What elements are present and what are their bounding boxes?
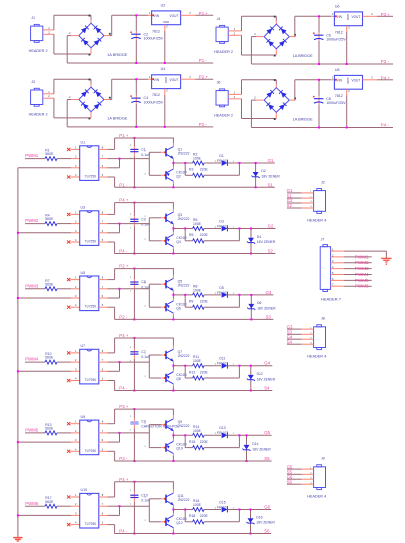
no-connect pin4: [67, 240, 80, 243]
no-connect pin1: [67, 422, 80, 425]
wire pin8 to positive rail: [99, 202, 174, 215]
wire net S4 to J8 pin 4: [287, 343, 314, 345]
wire resistor to pin2: [57, 288, 80, 290]
wire VOUT output net P1+: [181, 14, 214, 16]
negative rail wire: [115, 460, 272, 462]
svg-text:S4: S4: [287, 339, 293, 344]
wire resistor to pin2: [57, 505, 80, 507]
wire J7 pin4 net PWM3: [331, 268, 372, 270]
svg-text:S2: S2: [268, 249, 274, 254]
diode D13 FR 107: [204, 426, 272, 438]
svg-text:G5: G5: [264, 430, 270, 435]
no-connect pin4: [67, 450, 80, 453]
svg-text:G1: G1: [268, 158, 274, 163]
diode D11 FR 107: [204, 357, 272, 369]
wire J7 pin2 net PWM1: [331, 256, 372, 258]
svg-text:HEADER 2: HEADER 2: [214, 113, 233, 117]
svg-text:220E: 220E: [200, 168, 209, 172]
svg-text:TLP250: TLP250: [85, 378, 97, 382]
resistor R16 100E: [193, 499, 205, 512]
zener diode D14 18V ZENER: [243, 434, 272, 461]
optocoupler U1 TLP250: [75, 141, 104, 181]
svg-text:U4: U4: [161, 67, 166, 71]
diode D3 FR 107: [204, 219, 275, 231]
resistor R10 560E: [45, 352, 57, 364]
capacitor C3 0.1uF: [130, 203, 151, 254]
svg-text:D5: D5: [219, 286, 223, 290]
resistor R15 220E: [185, 435, 239, 449]
no-connect pin1: [67, 495, 80, 498]
svg-text:2N2222: 2N2222: [178, 283, 190, 287]
capacitor C10 0.1uF: [130, 482, 151, 534]
svg-text:TLP250: TLP250: [85, 240, 97, 244]
capacitor C6 1000uF/25V: [313, 15, 347, 65]
wire PWM5 input: [25, 432, 45, 434]
svg-text:2N2222: 2N2222: [178, 354, 190, 358]
svg-text:R12: R12: [189, 370, 195, 374]
svg-text:P2 +: P2 +: [119, 264, 129, 269]
wire J7 pin7 net PWM6: [331, 285, 372, 287]
svg-text:VIN: VIN: [337, 79, 343, 83]
wire VOUT output net P4+: [363, 79, 394, 81]
svg-text:P4 +: P4 +: [381, 75, 391, 80]
optocoupler U3 TLP250: [75, 206, 104, 246]
wire pin3 to ground rail: [18, 167, 80, 169]
svg-text:Q10: Q10: [176, 447, 183, 451]
wire PWM1 input: [25, 158, 45, 160]
wire bridge plus to regulator VIN: [104, 15, 152, 35]
wire opto output to transistor bases: [99, 423, 165, 448]
wire opto output to transistor bases: [99, 216, 165, 241]
wire VOUT output net P2+: [181, 78, 214, 80]
svg-text:U2: U2: [161, 3, 166, 7]
svg-text:100E: 100E: [193, 222, 202, 226]
no-connect pin1: [67, 351, 80, 354]
svg-text:P4 -: P4 -: [381, 123, 390, 128]
resistor R8 100E: [193, 284, 205, 297]
power ground symbol: [381, 258, 391, 265]
svg-text:D4: D4: [257, 235, 261, 239]
resistor R13 560E: [45, 423, 57, 435]
svg-text:FR 107: FR 107: [217, 362, 228, 366]
wire J pin1 to bridge AC1: [43, 15, 91, 30]
resistor R1 560E: [45, 149, 57, 161]
svg-text:FR 107: FR 107: [217, 224, 228, 228]
svg-text:J4: J4: [217, 17, 221, 21]
svg-text:J2: J2: [321, 180, 325, 184]
svg-text:2N2222: 2N2222: [178, 217, 190, 221]
svg-text:VOUT: VOUT: [351, 15, 360, 19]
diode D1 FR 107: [204, 154, 275, 166]
capacitor C1 0.1uF: [130, 138, 151, 187]
svg-text:R3: R3: [189, 168, 193, 172]
svg-text:1000uF/25V: 1000uF/25V: [144, 101, 164, 105]
svg-text:VOUT: VOUT: [351, 79, 360, 83]
transistor Q5 2N2222: [164, 269, 189, 295]
capacitor C5 0.1uF: [130, 269, 151, 320]
capacitor C8 1000uF/25V: [313, 79, 347, 129]
svg-text:HEADER 2: HEADER 2: [29, 113, 48, 117]
negative rail wire: [115, 533, 272, 535]
optocoupler U10 TLP250: [75, 488, 104, 528]
transistor Q11 2N2222: [164, 482, 189, 510]
wire pin3 to ground rail: [18, 297, 80, 299]
svg-text:P4 -: P4 -: [119, 386, 128, 391]
svg-text:G3: G3: [266, 290, 272, 295]
svg-text:S5: S5: [264, 456, 270, 461]
wire J7 pin1 to power ground: [331, 251, 387, 258]
wire pin8 to positive rail: [99, 137, 174, 149]
svg-text:560E: 560E: [45, 427, 54, 431]
svg-text:1A BRIDGE: 1A BRIDGE: [293, 54, 314, 58]
svg-text:7812: 7812: [152, 93, 160, 97]
svg-text:P1 +: P1 +: [199, 11, 209, 16]
svg-text:HEADER 2: HEADER 2: [214, 50, 233, 54]
bridge rectifier 1A BRIDGE: [69, 23, 128, 57]
svg-text:220E: 220E: [200, 233, 209, 237]
svg-text:560E: 560E: [45, 356, 54, 360]
svg-text:FR 107: FR 107: [217, 431, 228, 435]
svg-text:VIN: VIN: [154, 78, 160, 82]
svg-text:G2: G2: [268, 223, 274, 228]
wire pin8 to positive rail: [99, 268, 174, 280]
wire pin3 to ground rail: [18, 441, 80, 443]
svg-text:560E: 560E: [45, 500, 54, 504]
svg-text:S6: S6: [287, 479, 293, 484]
svg-text:PWM1: PWM1: [355, 254, 369, 259]
capacitor C9 CAPACITOR NON-POL: [130, 409, 179, 461]
wire bridge plus to regulator VIN: [289, 80, 334, 100]
svg-text:100E: 100E: [193, 429, 202, 433]
bridge rectifier 1A BRIDGE: [254, 88, 313, 122]
svg-text:HEADER 4: HEADER 4: [307, 355, 326, 359]
svg-text:P4 -: P4 -: [119, 249, 128, 254]
wire net S6 to J9 pin 4: [287, 483, 314, 485]
svg-text:D6: D6: [257, 301, 261, 305]
svg-text:PWM4: PWM4: [25, 357, 39, 362]
no-connect pin1: [67, 213, 80, 216]
svg-text:U7: U7: [81, 344, 86, 348]
svg-text:P3 -: P3 -: [119, 456, 128, 461]
svg-text:PWM4: PWM4: [355, 272, 369, 277]
svg-text:PWM5: PWM5: [355, 278, 369, 283]
wire bridge plus to regulator VIN: [104, 79, 152, 99]
regulator U6 7812: [332, 4, 373, 34]
no-connect pin4: [67, 379, 80, 382]
svg-text:VOUT: VOUT: [170, 78, 179, 82]
svg-text:560E: 560E: [45, 282, 54, 286]
wire regulator GND to ground rail: [346, 26, 348, 65]
wire regulator GND to ground rail: [164, 89, 166, 128]
transistor Q12 CK100: [164, 510, 186, 534]
zener diode D6 18V ZENER: [247, 294, 276, 320]
resistor R14 100E: [193, 425, 205, 438]
svg-text:7812: 7812: [335, 94, 343, 98]
wire opto output to transistor bases: [99, 282, 165, 307]
wire J7 pin6 net PWM5: [331, 279, 372, 281]
svg-text:PWM5: PWM5: [25, 428, 39, 433]
resistor R3 220E: [185, 163, 239, 177]
wire J pin2 to bridge AC2: [43, 98, 91, 119]
svg-text:FR 107: FR 107: [217, 291, 228, 295]
wire net G3 to J8 pin 1: [287, 328, 314, 330]
svg-text:D13: D13: [219, 426, 225, 430]
svg-text:P1 -: P1 -: [119, 182, 128, 187]
wire bridge plus to regulator VIN: [289, 16, 334, 36]
wire J pin2 to bridge AC2: [43, 34, 91, 55]
transistor Q6 CK100: [164, 295, 186, 320]
svg-text:J9: J9: [321, 457, 325, 461]
wire bridge minus to ground rail: [251, 37, 393, 64]
wire pin3 to ground rail: [18, 370, 80, 372]
wire opto output to transistor bases: [99, 151, 165, 176]
svg-text:P4 +: P4 +: [119, 333, 129, 338]
svg-text:1000uF/25V: 1000uF/25V: [144, 37, 164, 41]
svg-text:S1: S1: [268, 182, 274, 187]
svg-text:S2: S2: [287, 203, 293, 208]
svg-text:PWM3: PWM3: [25, 283, 39, 288]
svg-text:Q4: Q4: [176, 240, 181, 244]
svg-text:GND: GND: [164, 77, 168, 83]
svg-text:D1: D1: [219, 154, 223, 158]
svg-text:100E: 100E: [193, 503, 202, 507]
regulator U4 7812: [149, 67, 191, 97]
svg-text:220E: 220E: [200, 514, 209, 518]
svg-text:2N2222: 2N2222: [178, 424, 190, 428]
wire net S1 to J2 pin 2: [287, 197, 314, 199]
svg-text:R9: R9: [189, 300, 193, 304]
connector J1 HEADER 2: [29, 16, 51, 53]
svg-text:18V ZENER: 18V ZENER: [257, 377, 276, 381]
svg-text:100E: 100E: [193, 359, 202, 363]
svg-text:P2 +: P2 +: [199, 75, 209, 80]
svg-text:U1: U1: [81, 141, 86, 145]
transistor Q2 CK100: [164, 163, 186, 187]
svg-text:P2 -: P2 -: [199, 122, 208, 127]
transistor Q7 2N2222: [164, 338, 189, 366]
connector J6 HEADER 2: [214, 81, 236, 118]
svg-text:R15: R15: [189, 440, 195, 444]
svg-text:VIN: VIN: [154, 14, 160, 18]
wire pin8 to positive rail: [99, 337, 174, 353]
connector J4 HEADER 2: [214, 17, 236, 54]
wire net G5 to J9 pin 1: [287, 468, 314, 470]
svg-text:U10: U10: [81, 488, 88, 492]
svg-text:PWM6: PWM6: [25, 501, 39, 506]
wire pin5 to negative rail: [99, 307, 115, 319]
svg-text:P4 +: P4 +: [119, 477, 129, 482]
wire opto output to transistor bases: [99, 353, 165, 378]
svg-text:FR 107: FR 107: [217, 505, 228, 509]
wire bridge minus to ground rail: [67, 100, 213, 127]
left common return rail wire: [17, 168, 19, 537]
bridge rectifier 1A BRIDGE: [254, 24, 313, 58]
svg-text:U3: U3: [81, 206, 86, 210]
svg-text:U6: U6: [335, 4, 340, 8]
connector J7 HEADER 7: [320, 238, 342, 302]
svg-text:D12: D12: [257, 372, 263, 376]
no-connect pin4: [67, 306, 80, 309]
wire regulator GND to ground rail: [164, 25, 166, 64]
negative rail wire: [115, 390, 273, 392]
svg-text:U9: U9: [81, 415, 86, 419]
wire J7 pin3 net PWM2: [331, 262, 372, 264]
wire J7 pin5 net PWM4: [331, 274, 372, 276]
wire J pin2 to bridge AC2: [228, 35, 276, 56]
svg-text:D11: D11: [219, 357, 225, 361]
gate drive node wire: [172, 509, 192, 511]
svg-text:TLP250: TLP250: [85, 175, 97, 179]
svg-text:R6: R6: [189, 233, 193, 237]
svg-text:P4 +: P4 +: [119, 198, 129, 203]
transistor Q3 2N2222: [164, 203, 189, 229]
wire PWM6 input: [25, 505, 45, 507]
wire J pin2 to bridge AC2: [228, 99, 276, 120]
resistor R2 100E: [193, 153, 205, 166]
connector J3 HEADER 2: [29, 80, 51, 117]
resistor R18 220E: [185, 510, 239, 524]
svg-text:GND: GND: [346, 14, 350, 20]
transistor Q4 CK100: [164, 229, 186, 254]
wire PWM3 input: [25, 288, 45, 290]
svg-text:Q12: Q12: [176, 521, 183, 525]
svg-text:GND: GND: [163, 20, 169, 24]
svg-text:D16: D16: [256, 516, 262, 520]
negative rail wire: [115, 318, 274, 320]
svg-text:HEADER 2: HEADER 2: [29, 49, 48, 53]
svg-text:Q8: Q8: [176, 377, 181, 381]
svg-text:D3: D3: [219, 219, 223, 223]
svg-text:PWM6: PWM6: [355, 284, 369, 289]
resistor R5 100E: [193, 218, 205, 231]
resistor R9 220E: [185, 295, 239, 309]
svg-text:HEADER 4: HEADER 4: [307, 218, 326, 222]
wire resistor to pin2: [57, 158, 80, 160]
no-connect pin1: [67, 148, 80, 151]
optocoupler U5 TLP250: [75, 271, 104, 311]
gate drive node wire: [172, 228, 192, 230]
zener diode D4 18V ZENER: [247, 228, 276, 254]
wire net G4 to J8 pin 3: [287, 338, 314, 340]
resistor R17 560E: [45, 496, 57, 508]
svg-text:TLP250: TLP250: [85, 449, 97, 453]
wire resistor to pin2: [57, 432, 80, 434]
svg-text:HEADER 7: HEADER 7: [321, 296, 342, 301]
resistor R4 560E: [45, 214, 57, 226]
svg-text:Q2: Q2: [176, 174, 181, 178]
svg-text:7812: 7812: [152, 29, 160, 33]
diode D15 FR 107: [204, 500, 271, 512]
svg-text:P3 +: P3 +: [119, 404, 129, 409]
svg-text:2N2222: 2N2222: [178, 498, 190, 502]
wire J pin1 to bridge AC1: [228, 16, 276, 31]
svg-text:C3: C3: [141, 217, 146, 221]
wire pin3 to ground rail: [18, 514, 80, 516]
negative rail wire: [115, 186, 275, 188]
svg-text:220E: 220E: [200, 370, 209, 374]
wire net S2 to J2 pin 4: [287, 207, 314, 209]
connector J2 HEADER 4: [307, 180, 326, 222]
svg-text:PWM3: PWM3: [355, 266, 369, 271]
wire pin5 to negative rail: [99, 451, 115, 461]
resistor R6 220E: [185, 229, 239, 243]
zener diode D12 18V ZENER: [247, 365, 276, 391]
svg-text:J8: J8: [321, 317, 325, 321]
wire net G6 to J9 pin 3: [287, 478, 314, 480]
wire PWM4 input: [25, 361, 45, 363]
wire pin5 to negative rail: [99, 525, 115, 534]
svg-text:P1 -: P1 -: [199, 58, 208, 63]
svg-text:PWM2: PWM2: [355, 260, 369, 265]
wire PWM2 input: [25, 223, 45, 225]
svg-text:D14: D14: [252, 442, 258, 446]
svg-text:CAPACITOR NON-POL: CAPACITOR NON-POL: [141, 425, 179, 429]
svg-text:U8: U8: [335, 68, 340, 72]
svg-text:18V ZENER: 18V ZENER: [257, 306, 276, 310]
wire bridge minus to ground rail: [251, 100, 393, 127]
svg-text:18V ZENER: 18V ZENER: [261, 174, 280, 178]
gate drive node wire: [172, 365, 192, 367]
regulator U2 7812: [149, 3, 191, 33]
svg-text:PWM2: PWM2: [25, 218, 39, 223]
transistor Q1 2N2222: [164, 138, 189, 163]
gate drive node wire: [172, 294, 192, 296]
svg-text:S6: S6: [264, 529, 270, 534]
svg-text:VOUT: VOUT: [170, 14, 179, 18]
wire net G2 to J2 pin 3: [287, 202, 314, 204]
wire VOUT output net P3+: [363, 15, 394, 17]
svg-text:18V ZENER: 18V ZENER: [257, 240, 276, 244]
svg-text:1A BRIDGE: 1A BRIDGE: [107, 53, 128, 57]
wire bridge minus to ground rail: [67, 36, 213, 63]
svg-text:P3 -: P3 -: [381, 59, 390, 64]
wire pin5 to negative rail: [99, 381, 115, 391]
svg-text:VIN: VIN: [337, 15, 343, 19]
capacitor C4 1000uF/25V: [130, 78, 164, 128]
wire net S3 to J8 pin 2: [287, 333, 314, 335]
svg-text:J3: J3: [31, 80, 35, 84]
wire net S5 to J9 pin 2: [287, 473, 314, 475]
gate drive node wire: [172, 162, 192, 164]
svg-text:J1: J1: [31, 16, 35, 20]
no-connect pin1: [67, 278, 80, 281]
svg-text:D15: D15: [219, 500, 225, 504]
svg-text:220E: 220E: [200, 440, 209, 444]
svg-text:18V ZENER: 18V ZENER: [252, 447, 271, 451]
wire pin8 to positive rail: [99, 408, 174, 424]
svg-text:R18: R18: [189, 514, 195, 518]
svg-text:U5: U5: [81, 271, 86, 275]
wire resistor to pin2: [57, 223, 80, 225]
wire opto output to transistor bases: [99, 497, 165, 522]
svg-text:560E: 560E: [45, 152, 54, 156]
svg-text:P4 -: P4 -: [119, 529, 128, 534]
wire pin8 to positive rail: [99, 481, 174, 497]
transistor Q8 CK100: [164, 366, 186, 391]
svg-text:J7: J7: [321, 238, 325, 242]
no-connect pin4: [67, 175, 80, 178]
svg-text:FR 107: FR 107: [217, 159, 228, 163]
svg-text:Q6: Q6: [176, 306, 181, 310]
svg-text:P2 -: P2 -: [119, 314, 128, 319]
svg-text:TLP250: TLP250: [85, 522, 97, 526]
svg-text:18V ZENER: 18V ZENER: [256, 521, 275, 525]
svg-text:P1 +: P1 +: [119, 133, 129, 138]
svg-text:P3 +: P3 +: [381, 12, 391, 17]
resistor R7 560E: [45, 279, 57, 291]
svg-text:J6: J6: [217, 81, 221, 85]
svg-text:7812: 7812: [335, 30, 343, 34]
